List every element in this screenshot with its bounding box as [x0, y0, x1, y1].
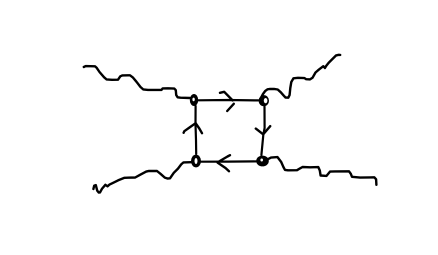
- fermion propagator top edge (wire V1-V2): [198, 99, 259, 102]
- vertex V4 (bottom-left, hand-drawn blob): [191, 155, 201, 168]
- arrow right on top edge: [220, 92, 234, 111]
- vertex V3 (bottom-right, hand-drawn blob): [256, 156, 269, 167]
- fermion propagator bottom edge (wire V3-V4): [201, 160, 256, 163]
- vertex V2 (top-right, hand-drawn blob): [259, 95, 269, 106]
- fermion propagator right edge (wire V2-V3): [261, 107, 264, 156]
- photon line top-left (wavy external line into vertex V1): [84, 66, 190, 98]
- vertex V1 (top-left, hand-drawn blob): [190, 94, 198, 106]
- arrow down on right edge: [256, 126, 270, 134]
- photon line bottom-right (wavy external line from vertex V3): [267, 157, 376, 185]
- photon line top-right (wavy external line from vertex V2): [262, 55, 341, 98]
- arrow left on bottom edge: [218, 155, 231, 171]
- photon line bottom-left (wavy external line into vertex V4): [93, 162, 191, 192]
- fermion propagator left edge (wire V4-V1): [194, 106, 197, 154]
- arrow up on left edge: [184, 123, 202, 133]
